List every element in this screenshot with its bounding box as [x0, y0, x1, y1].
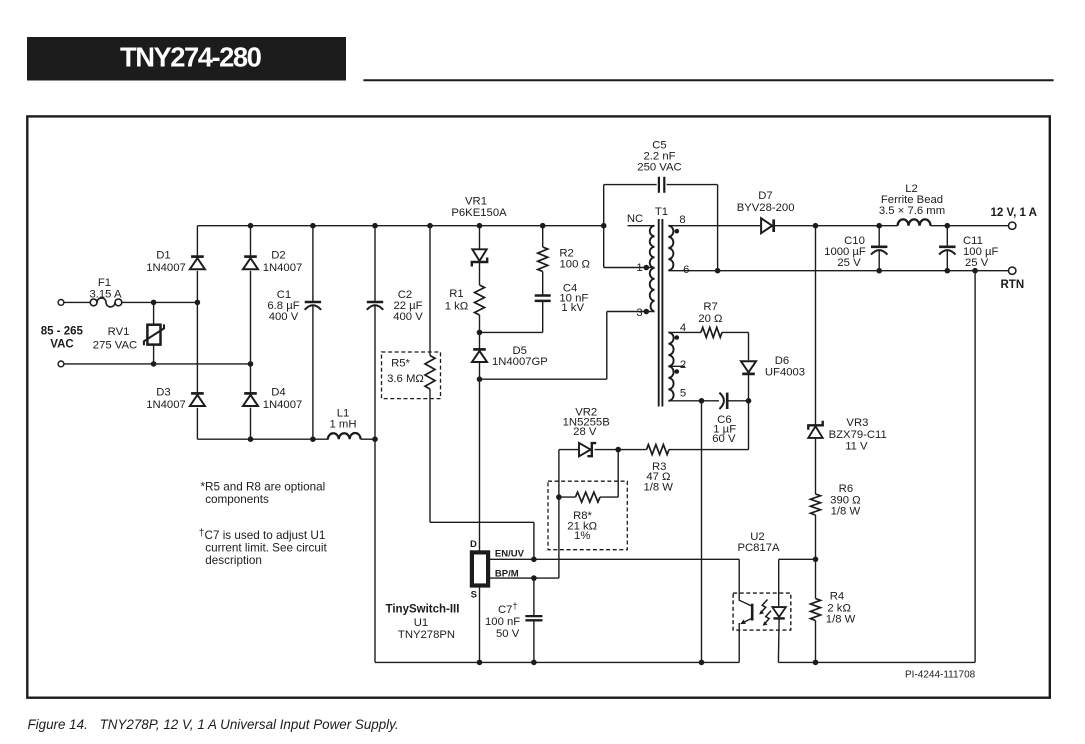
- svg-text:C7†: C7†: [498, 601, 517, 616]
- resistor R7: [698, 301, 748, 361]
- wire AC bottom: [64, 363, 251, 365]
- svg-text:3.6 MΩ: 3.6 MΩ: [387, 373, 424, 385]
- resistor R3: [595, 445, 674, 494]
- svg-text:12 V, 1 A: 12 V, 1 A: [991, 207, 1037, 219]
- T1 primary winding: [650, 226, 655, 312]
- svg-text:components: components: [205, 493, 269, 506]
- capacitor C7: [485, 578, 542, 662]
- node pin5 / C6: [699, 398, 705, 404]
- node L1 / C2: [372, 436, 378, 442]
- secondary return rail wire: [778, 271, 975, 663]
- svg-text:1N4007GP: 1N4007GP: [492, 356, 548, 368]
- U1 TinySwitch-III: [386, 539, 525, 641]
- wire pin 5 row: [668, 400, 748, 402]
- svg-text:1/8 W: 1/8 W: [826, 614, 856, 626]
- schematic outer border: [27, 116, 1050, 697]
- svg-text:T1: T1: [655, 206, 668, 218]
- node AC top / RV1: [151, 300, 157, 306]
- inductor L1: [328, 408, 375, 440]
- svg-text:S: S: [471, 590, 477, 601]
- svg-text:1 kΩ: 1 kΩ: [445, 301, 469, 313]
- capacitor C2: [367, 226, 423, 440]
- node D5 / drain row: [477, 376, 483, 382]
- svg-text:D6: D6: [775, 355, 789, 367]
- T1 core: [659, 219, 663, 407]
- wire U1 source pin to ground rail: [479, 585, 481, 662]
- wire pin 8 row: [668, 225, 760, 227]
- node pin5 drop / ground rail: [699, 660, 705, 666]
- svg-text:60 V: 60 V: [712, 433, 736, 445]
- svg-text:D7: D7: [758, 190, 772, 202]
- AC input terminal top: [58, 300, 64, 306]
- T1 pin 2 stub: [668, 365, 685, 367]
- svg-text:current limit. See circuit: current limit. See circuit: [205, 542, 327, 555]
- resistor R8 (optional, dashed box): [548, 450, 627, 550]
- svg-text:20 Ω: 20 Ω: [698, 313, 722, 325]
- node secondary rail / R4: [813, 660, 819, 666]
- output terminal RTN: [1009, 267, 1016, 274]
- diode D7: [737, 190, 795, 233]
- U2 light arrows: [760, 600, 767, 614]
- svg-text:BZX79-C11: BZX79-C11: [829, 429, 887, 441]
- svg-text:R4: R4: [830, 591, 844, 603]
- svg-text:D2: D2: [271, 250, 285, 262]
- svg-text:TinySwitch-III: TinySwitch-III: [386, 604, 460, 616]
- wire BP/M row: [490, 577, 559, 579]
- wire C5 branch: [604, 185, 657, 268]
- svg-text:EN/UV: EN/UV: [495, 549, 525, 560]
- svg-text:BYV28-200: BYV28-200: [737, 202, 795, 214]
- resistor R4: [811, 559, 856, 662]
- capacitor C5: [637, 140, 717, 271]
- svg-text:D3: D3: [156, 387, 170, 399]
- inductor L2: [879, 183, 945, 226]
- svg-text:VR3: VR3: [846, 417, 868, 429]
- U2 phototransistor bar: [751, 604, 754, 621]
- svg-text:1N4007: 1N4007: [263, 262, 303, 274]
- node 12V / C11: [945, 223, 951, 229]
- node EN/UV junction: [531, 557, 537, 563]
- svg-text:TNY274-280: TNY274-280: [120, 42, 262, 73]
- svg-text:P6KE150A: P6KE150A: [451, 207, 507, 219]
- T1 upper secondary winding: [668, 226, 673, 271]
- svg-text:PC817A: PC817A: [737, 542, 780, 554]
- varistor RV1: [93, 302, 164, 364]
- wire bridge left leg: [196, 226, 198, 440]
- node top bus / R2: [540, 223, 546, 229]
- wire R5 to EN/UV: [430, 522, 534, 559]
- wire bridge right leg: [250, 226, 252, 440]
- wire C2 node down to primary ground rail: [374, 439, 376, 662]
- svg-text:PI-4244-111708: PI-4244-111708: [905, 670, 976, 681]
- node top bus / R5: [427, 223, 433, 229]
- node EN row / R6-R4: [813, 557, 819, 563]
- svg-text:400 V: 400 V: [269, 311, 299, 323]
- node bottom rail / D4: [248, 436, 254, 442]
- svg-text:100 Ω: 100 Ω: [560, 259, 590, 271]
- svg-text:R1: R1: [449, 288, 463, 300]
- U2 LED: [778, 559, 780, 606]
- svg-text:1 kV: 1 kV: [561, 302, 584, 314]
- svg-text:3: 3: [636, 307, 642, 319]
- svg-text:85 - 265: 85 - 265: [41, 326, 84, 338]
- svg-text:RTN: RTN: [1001, 279, 1025, 291]
- wire AC top to fuse: [64, 301, 90, 303]
- resistor R1: [445, 285, 485, 332]
- node RTN / C10: [876, 268, 882, 274]
- bridge bottom rail wire: [197, 438, 328, 440]
- node top bus / C1: [310, 223, 316, 229]
- svg-text:3.15 A: 3.15 A: [89, 288, 122, 300]
- svg-text:1 mH: 1 mH: [330, 419, 357, 431]
- svg-text:8: 8: [679, 214, 685, 226]
- node 12V / C10: [876, 223, 882, 229]
- svg-text:RV1: RV1: [108, 326, 130, 338]
- capacitor C10: [824, 226, 887, 271]
- svg-text:*R5 and R8 are optional: *R5 and R8 are optional: [201, 481, 326, 494]
- node bottom rail / C1: [310, 436, 316, 442]
- svg-text:275 VAC: 275 VAC: [93, 340, 137, 352]
- svg-text:1N4007: 1N4007: [263, 399, 303, 411]
- wire 12V rail: [774, 225, 1009, 227]
- svg-text:2: 2: [680, 359, 686, 371]
- zener VR2: [559, 407, 610, 579]
- T1 pin8 polarity dot: [675, 229, 680, 234]
- primary ground rail wire: [375, 661, 739, 663]
- svg-text:D: D: [470, 539, 477, 550]
- svg-text:1N4007: 1N4007: [146, 399, 186, 411]
- node VR2 / R8: [556, 494, 562, 500]
- node top bus / C2: [372, 223, 378, 229]
- diode D3: [190, 393, 205, 406]
- svg-text:400 V: 400 V: [393, 311, 423, 323]
- svg-text:25 V: 25 V: [965, 257, 989, 269]
- svg-text:VR1: VR1: [465, 196, 487, 208]
- node R1/C4: [477, 330, 483, 336]
- svg-text:1%: 1%: [574, 530, 590, 542]
- wire drain column to U1 D pin: [479, 379, 481, 553]
- svg-text:C7 is used to adjust U1: C7 is used to adjust U1: [205, 529, 326, 542]
- svg-text:100 nF: 100 nF: [485, 616, 520, 628]
- capacitor C11: [939, 226, 998, 271]
- T1 NC stub: [628, 225, 655, 227]
- svg-text:D4: D4: [271, 387, 285, 399]
- svg-text:250 VAC: 250 VAC: [637, 162, 681, 174]
- U2 phototransistor emitter: [739, 618, 752, 662]
- node RTN / right drop: [972, 268, 978, 274]
- fuse F1: [90, 299, 97, 306]
- diode D1: [190, 257, 205, 270]
- transformer T1: [627, 206, 690, 407]
- node AC bottom / RV1: [151, 361, 157, 367]
- diode D4: [243, 393, 258, 406]
- node top bus / VR1: [477, 223, 483, 229]
- U2 phototransistor collector: [739, 559, 752, 606]
- capacitor C6: [712, 393, 736, 446]
- header black bar: [27, 37, 346, 81]
- TVS VR1: [451, 196, 507, 286]
- wire fuse to bridge: [122, 301, 198, 303]
- svg-text:NC: NC: [627, 213, 643, 225]
- node 12V / VR3 branch: [813, 223, 819, 229]
- resistor R6: [811, 483, 861, 559]
- svg-text:1N4007: 1N4007: [146, 262, 186, 274]
- node C6 / D6: [746, 398, 752, 404]
- capacitor C1: [267, 226, 321, 440]
- node C5 / RTN rail: [715, 268, 721, 274]
- svg-text:UF4003: UF4003: [765, 367, 805, 379]
- wire EN/UV row: [490, 558, 739, 560]
- node RTN / C11: [945, 268, 951, 274]
- top DC bus wire: [197, 225, 603, 227]
- svg-text:25 V: 25 V: [837, 257, 861, 269]
- svg-text:R5*: R5*: [391, 358, 410, 370]
- zener VR3: [808, 226, 886, 494]
- wire drain row to pin 3: [480, 312, 655, 380]
- svg-text:description: description: [205, 554, 262, 567]
- wire RTN rail: [668, 270, 1008, 272]
- wire R1-C4 row: [480, 331, 543, 333]
- svg-text:VAC: VAC: [50, 339, 73, 351]
- diode D5: [472, 332, 548, 379]
- svg-text:R7: R7: [703, 301, 717, 313]
- svg-text:50 V: 50 V: [496, 628, 520, 640]
- svg-text:R6: R6: [839, 483, 853, 495]
- T1 pin3 dot: [644, 309, 650, 315]
- node S / ground rail: [477, 660, 483, 666]
- optocoupler U2: [733, 531, 791, 662]
- wire LED anode row: [779, 558, 816, 560]
- AC input terminal bottom: [58, 361, 64, 367]
- node top bus / C5 branch: [601, 223, 607, 229]
- node AC bottom / D2-D4 leg: [248, 361, 254, 367]
- header rule line: [363, 79, 1053, 81]
- svg-text:3.5 × 7.6 mm: 3.5 × 7.6 mm: [879, 205, 945, 217]
- output terminal 12V: [1009, 222, 1016, 229]
- svg-text:TNY278PN: TNY278PN: [398, 629, 455, 641]
- wire D6 node down to R3 row: [669, 401, 749, 450]
- T1 lower secondary winding: [668, 332, 673, 400]
- T1 pin1 dot: [644, 265, 650, 271]
- svg-text:1/8 W: 1/8 W: [831, 506, 861, 518]
- diode D2: [243, 257, 258, 270]
- node BP/M / C7: [531, 575, 537, 581]
- T1 pin2 polarity dot: [675, 369, 680, 374]
- T1 pin4 polarity dot: [675, 335, 680, 340]
- svg-text:1: 1: [636, 262, 642, 274]
- wire pin5 drop to primary ground: [701, 401, 703, 663]
- node top bus / D2: [248, 223, 254, 229]
- wire pin 4 row: [668, 331, 701, 333]
- node R3 / R8 branch: [615, 447, 621, 453]
- svg-text:U1: U1: [414, 617, 428, 629]
- svg-text:5: 5: [680, 388, 686, 400]
- svg-text:1/8 W: 1/8 W: [643, 482, 673, 494]
- node C7 / ground rail: [531, 660, 537, 666]
- capacitor C4: [535, 283, 589, 333]
- resistor R2: [538, 226, 590, 296]
- svg-text:D1: D1: [156, 250, 170, 262]
- svg-text:28 V: 28 V: [573, 426, 597, 438]
- svg-text:F1: F1: [98, 277, 111, 289]
- diode D6: [741, 355, 805, 401]
- resistor R5 (optional, dashed box): [382, 226, 441, 523]
- node bridge left top AC: [195, 300, 201, 306]
- svg-text:Figure 14.TNY278P, 12 V, 1 A U: Figure 14.TNY278P, 12 V, 1 A Universal I…: [28, 717, 399, 732]
- svg-text:11 V: 11 V: [845, 441, 868, 453]
